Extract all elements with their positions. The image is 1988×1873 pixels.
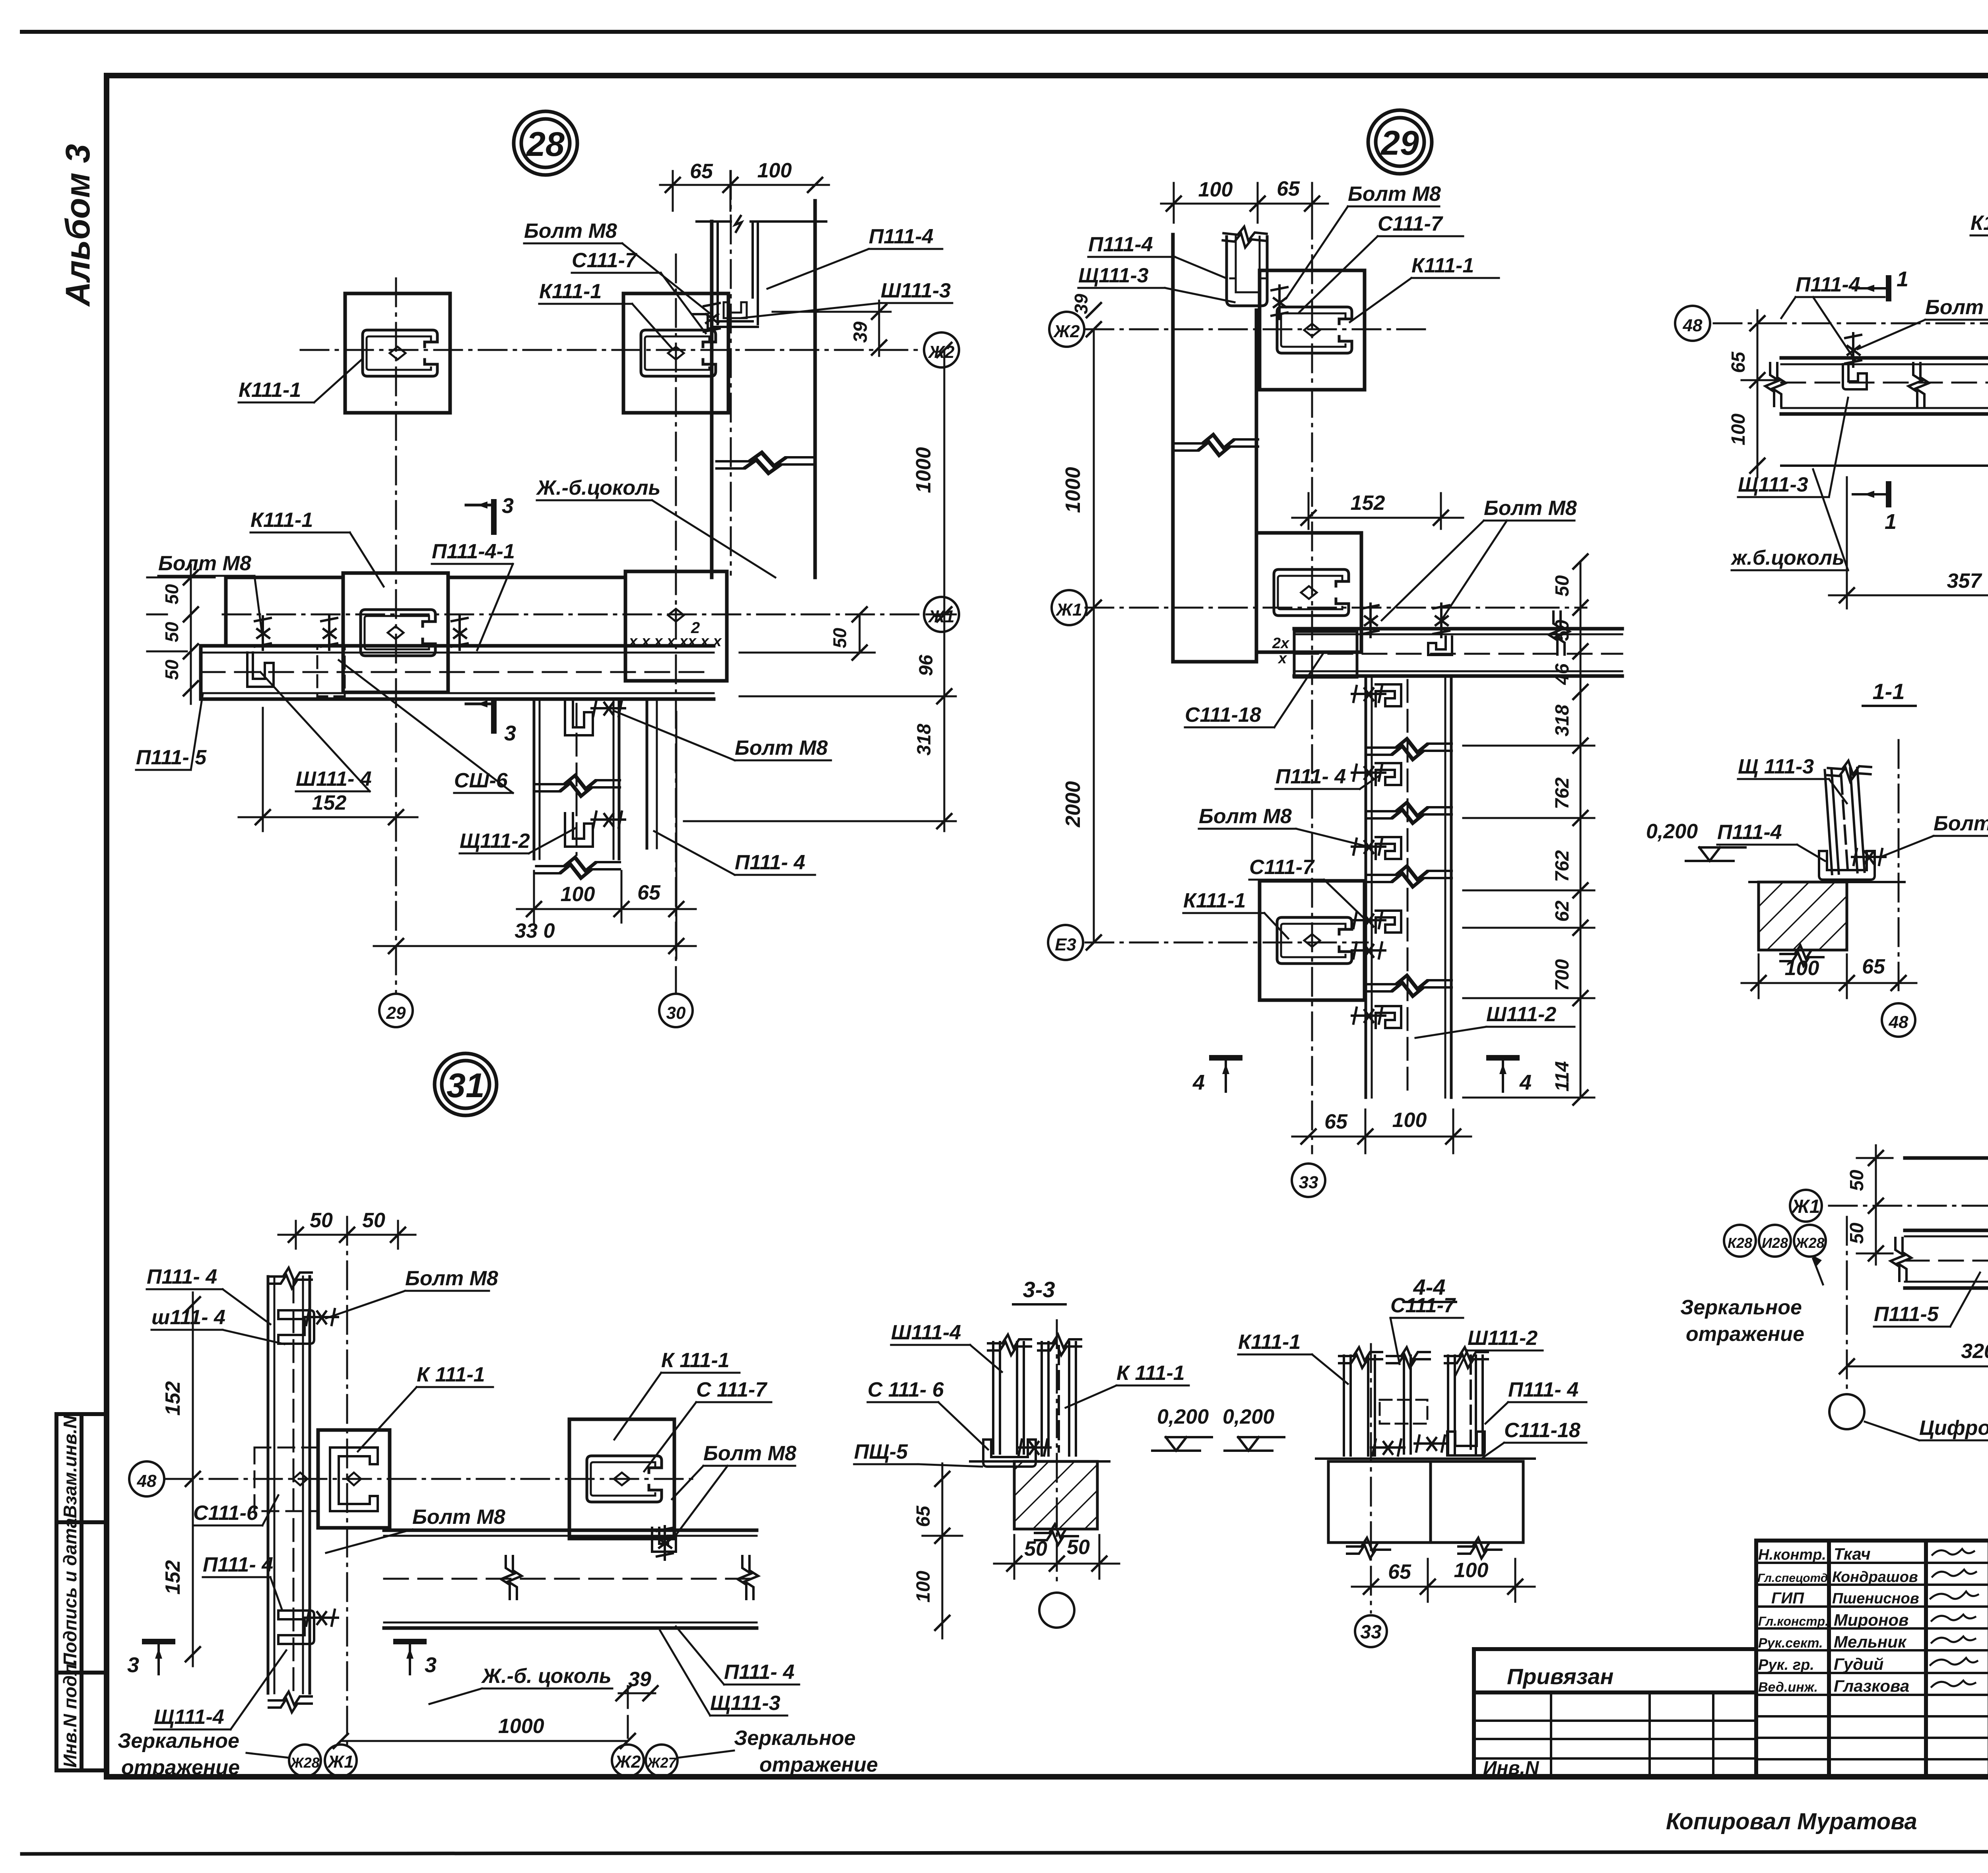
svg-text:Ш111-2: Ш111-2 xyxy=(1468,1327,1538,1350)
posts xyxy=(993,1342,1076,1455)
bolts xyxy=(1845,333,1861,367)
top trim line xyxy=(22,30,1988,34)
svg-text:Щ 111-3: Щ 111-3 xyxy=(1738,755,1814,778)
left dims 50/50 xyxy=(1857,1145,1893,1265)
svg-text:Болт М8: Болт М8 xyxy=(1199,805,1292,828)
svg-text:50: 50 xyxy=(1024,1537,1047,1560)
svg-text:3: 3 xyxy=(425,1653,437,1677)
svg-text:Болт М8: Болт М8 xyxy=(524,220,617,243)
svg-text:К111-1: К111-1 xyxy=(1238,1331,1301,1354)
svg-text:29: 29 xyxy=(1380,124,1419,162)
bolts on beam xyxy=(1363,604,1378,637)
dim 65/100 bottom xyxy=(1292,1109,1471,1153)
svg-text:отражение: отражение xyxy=(121,1756,240,1779)
bracket in beam xyxy=(1428,637,1452,655)
svg-text:Привязан: Привязан xyxy=(1507,1664,1613,1689)
svg-text:С111-7: С111-7 xyxy=(1390,1294,1456,1317)
column below beam xyxy=(534,699,619,859)
svg-text:П111-5: П111-5 xyxy=(1874,1303,1939,1326)
dim 100 65 xyxy=(517,712,696,958)
svg-text:152: 152 xyxy=(312,791,347,814)
foundation hatched xyxy=(1759,882,1847,950)
svg-text:3: 3 xyxy=(502,494,514,518)
svg-text:x: x xyxy=(1277,650,1287,667)
svg-text:П111-4: П111-4 xyxy=(1717,821,1782,844)
bolts on beam xyxy=(255,616,271,650)
svg-text:Щ111-3: Щ111-3 xyxy=(1078,264,1149,287)
svg-text:П111- 4: П111- 4 xyxy=(735,851,805,874)
dashed box SSh-6 xyxy=(317,646,345,696)
svg-text:33 0: 33 0 xyxy=(514,919,555,942)
axis xyxy=(1056,1320,1058,1583)
svg-text:x x x x x: x x x x x xyxy=(628,633,689,650)
svg-text:2: 2 xyxy=(691,619,700,637)
axis vertical through column xyxy=(346,1217,348,1746)
svg-text:50: 50 xyxy=(829,628,850,648)
svg-text:100: 100 xyxy=(561,883,595,906)
svg-text:И28: И28 xyxy=(1762,1235,1788,1251)
plate3 on beam xyxy=(343,573,448,692)
staff table outline xyxy=(1756,1541,1988,1778)
svg-text:1000: 1000 xyxy=(1062,467,1085,513)
svg-text:Ж.-б.цоколь: Ж.-б.цоколь xyxy=(536,476,660,499)
svg-text:100: 100 xyxy=(1198,178,1233,201)
svg-text:50: 50 xyxy=(1067,1536,1090,1559)
detail head circle 31 xyxy=(435,1053,497,1115)
svg-text:ш111- 4: ш111- 4 xyxy=(151,1306,225,1329)
dim 3200 xyxy=(1847,1366,1988,1368)
P111-4 lower wall pair xyxy=(646,699,648,848)
svg-text:К111-1: К111-1 xyxy=(239,379,301,402)
labels mid xyxy=(1183,703,1556,1026)
svg-text:С 111- 6: С 111- 6 xyxy=(868,1378,944,1401)
svg-text:Е3: Е3 xyxy=(1055,935,1076,954)
svg-text:0,200: 0,200 xyxy=(1157,1405,1209,1428)
svg-text:Ж28: Ж28 xyxy=(1794,1235,1824,1251)
bracket P111-4 right xyxy=(1447,1432,1485,1455)
detail head circle 28 xyxy=(514,111,577,175)
posts xyxy=(1344,1356,1483,1455)
svg-text:С111-7: С111-7 xyxy=(1378,212,1443,235)
brackets xyxy=(1843,364,1867,389)
svg-text:С111-18: С111-18 xyxy=(1504,1419,1580,1442)
svg-text:100: 100 xyxy=(1454,1559,1489,1582)
svg-text:Болт М8: Болт М8 xyxy=(405,1267,498,1290)
plate K111-1 left xyxy=(345,293,450,413)
svg-text:Н.контр.: Н.контр. xyxy=(1758,1547,1826,1563)
svg-text:С111-6: С111-6 xyxy=(193,1502,258,1525)
svg-text:4: 4 xyxy=(1192,1071,1205,1094)
corner plate K111-1 xyxy=(1256,533,1361,652)
labels xyxy=(854,1321,1209,1463)
svg-text:65: 65 xyxy=(1277,177,1300,200)
axis E3 xyxy=(1085,942,1368,944)
section 3 markers xyxy=(145,1642,424,1674)
C111-18 plate xyxy=(1294,631,1357,677)
svg-text:С 111-7: С 111-7 xyxy=(696,1378,767,1401)
left attach table (Привязан) xyxy=(1474,1649,1756,1778)
section markers bottom xyxy=(1853,484,1988,507)
svg-text:Вед.инж.: Вед.инж. xyxy=(1758,1680,1818,1695)
dim 1000 bottom xyxy=(341,1740,628,1742)
svg-text:Рук. гр.: Рук. гр. xyxy=(1758,1657,1814,1673)
svg-text:50: 50 xyxy=(1846,1170,1868,1191)
axis circle 48 xyxy=(1882,1003,1915,1037)
svg-text:100: 100 xyxy=(1392,1109,1427,1132)
svg-text:0,200: 0,200 xyxy=(1223,1405,1274,1428)
bolt on plate2 xyxy=(704,301,720,335)
plate K111-1 xyxy=(1260,270,1365,390)
svg-text:Щ111-4: Щ111-4 xyxy=(154,1706,224,1729)
svg-text:Ткач: Ткач xyxy=(1834,1545,1871,1563)
labels xyxy=(1730,212,1988,657)
svg-text:Ж1: Ж1 xyxy=(1790,1196,1820,1217)
xxx weld marks on plate4 xyxy=(628,633,722,650)
detail head circle 29 xyxy=(1368,110,1432,174)
svg-text:ПЩ-5: ПЩ-5 xyxy=(854,1440,908,1463)
foundation xyxy=(1014,1461,1097,1529)
svg-text:П111- 5: П111- 5 xyxy=(136,746,207,769)
svg-text:П111- 4: П111- 4 xyxy=(724,1661,794,1684)
svg-text:отражение: отражение xyxy=(1686,1323,1804,1346)
svg-text:Щ111-2: Щ111-2 xyxy=(460,830,530,853)
svg-text:П111-4-1: П111-4-1 xyxy=(432,540,515,563)
svg-text:29: 29 xyxy=(386,1003,406,1023)
svg-text:Инв.N подл.: Инв.N подл. xyxy=(60,1659,80,1768)
svg-text:Болт М8: Болт М8 xyxy=(1934,812,1988,835)
svg-text:П111- 4: П111- 4 xyxy=(203,1553,273,1576)
axis xyxy=(1898,740,1900,990)
left margin rotated labels xyxy=(60,1415,80,1768)
svg-text:Кондрашов: Кондрашов xyxy=(1832,1569,1918,1585)
axis Ж1 xyxy=(223,614,923,616)
plinth band top right xyxy=(712,201,815,577)
svg-text:Миронов: Миронов xyxy=(1834,1611,1908,1629)
dim 152 xyxy=(1292,493,1463,529)
base line and foundations (no hatch) xyxy=(1316,1457,1535,1460)
digit axis circle xyxy=(1829,1394,1864,1429)
band break marks xyxy=(718,453,813,473)
axis Ж1 xyxy=(1829,1205,1988,1207)
svg-text:Зеркальное: Зеркальное xyxy=(118,1729,239,1753)
labels top xyxy=(1078,183,1474,287)
svg-text:Взам.инв.N: Взам.инв.N xyxy=(60,1415,80,1518)
svg-text:700: 700 xyxy=(1552,959,1573,991)
vertical axis through plates xyxy=(1311,211,1313,1153)
svg-text:Ж1: Ж1 xyxy=(327,1752,353,1772)
beam xyxy=(1781,358,1988,466)
svg-text:П111-4: П111-4 xyxy=(1088,233,1153,256)
sh111-4 bracket in beam xyxy=(247,653,274,687)
axis circle Ж2 xyxy=(924,332,959,367)
svg-text:100: 100 xyxy=(913,1571,934,1603)
svg-text:Щ111-3: Щ111-3 xyxy=(710,1692,780,1715)
svg-text:П111-4: П111-4 xyxy=(1796,273,1860,296)
svg-text:50: 50 xyxy=(1846,1222,1868,1244)
top dim 50/50 xyxy=(278,1221,415,1249)
svg-text:48: 48 xyxy=(137,1471,157,1491)
svg-text:Гл.спецотд: Гл.спецотд xyxy=(1757,1572,1828,1585)
svg-text:3-3: 3-3 xyxy=(1023,1277,1055,1302)
svg-text:К 111-1: К 111-1 xyxy=(661,1349,730,1372)
channel post tilted xyxy=(1825,768,1864,874)
axis vertical 30 xyxy=(675,255,677,993)
svg-text:100: 100 xyxy=(757,159,792,182)
svg-text:152: 152 xyxy=(161,1560,184,1595)
svg-text:2x: 2x xyxy=(1272,635,1290,652)
svg-text:39: 39 xyxy=(628,1668,651,1691)
svg-text:65: 65 xyxy=(690,160,713,183)
svg-text:1000: 1000 xyxy=(498,1715,544,1738)
svg-text:318: 318 xyxy=(1552,705,1573,736)
svg-text:62: 62 xyxy=(1552,900,1573,922)
svg-text:Болт М8: Болт М8 xyxy=(703,1442,796,1465)
labels xyxy=(1646,755,1988,844)
svg-text:100: 100 xyxy=(1728,414,1749,445)
dim 65/100 xyxy=(1352,1586,1535,1588)
vertical axis to circle xyxy=(1846,1217,1848,1392)
plate K111-1 right xyxy=(623,293,728,413)
svg-text:3200: 3200 xyxy=(1961,1340,1988,1363)
svg-text:1: 1 xyxy=(1885,510,1897,534)
axis circles bottom xyxy=(289,1745,321,1776)
svg-text:33: 33 xyxy=(1299,1173,1318,1192)
panel P111-4 profile inside band xyxy=(697,221,826,327)
svg-text:Ш111- 4: Ш111- 4 xyxy=(296,767,372,791)
svg-text:Ж2: Ж2 xyxy=(1053,322,1080,341)
svg-text:Ш111-2: Ш111-2 xyxy=(1486,1003,1556,1026)
svg-text:Болт М8: Болт М8 xyxy=(412,1506,505,1529)
svg-text:50: 50 xyxy=(1552,575,1573,596)
svg-text:1000: 1000 xyxy=(912,447,935,493)
svg-text:Копировал Муратова: Копировал Муратова xyxy=(1666,1809,1917,1834)
svg-text:3: 3 xyxy=(504,721,516,745)
dim 330 xyxy=(374,945,696,947)
svg-text:48: 48 xyxy=(1889,1012,1908,1032)
svg-text:39: 39 xyxy=(1071,293,1091,314)
svg-text:Болт М8: Болт М8 xyxy=(1348,183,1441,206)
bracket P111-4 top of band xyxy=(1227,237,1267,306)
svg-text:33: 33 xyxy=(1360,1622,1382,1643)
svg-text:Ж.-б. цоколь: Ж.-б. цоколь xyxy=(481,1665,612,1688)
left dims 65/100 xyxy=(1741,310,1777,477)
axis 48 xyxy=(165,1478,696,1480)
svg-text:Цифровые оси: Цифровые оси xyxy=(1919,1416,1988,1440)
svg-text:Альбом 3: Альбом 3 xyxy=(59,144,97,307)
svg-text:Зеркальное: Зеркальное xyxy=(1680,1296,1802,1319)
plate4 rect xyxy=(625,571,727,681)
svg-text:Мельник: Мельник xyxy=(1834,1632,1907,1651)
svg-text:96: 96 xyxy=(916,655,937,676)
svg-text:Ш111-4: Ш111-4 xyxy=(891,1321,961,1344)
svg-text:Гудий: Гудий xyxy=(1834,1655,1883,1673)
top dimension 65/100 xyxy=(660,171,829,211)
left dim chain 1000/2000 xyxy=(1093,329,1095,942)
svg-text:Подпись и дата: Подпись и дата xyxy=(60,1518,80,1666)
svg-text:Болт М8: Болт М8 xyxy=(1925,296,1988,319)
labels xyxy=(118,1265,878,1779)
svg-text:Инв.N: Инв.N xyxy=(1483,1758,1540,1779)
wall band vertical xyxy=(1173,235,1256,662)
svg-text:39: 39 xyxy=(850,321,871,343)
right plate K111-1 xyxy=(569,1419,674,1539)
svg-text:152: 152 xyxy=(1351,492,1385,515)
svg-text:318: 318 xyxy=(914,724,935,756)
svg-text:46: 46 xyxy=(1552,663,1573,685)
svg-text:П111- 4: П111- 4 xyxy=(147,1265,217,1288)
svg-text:65: 65 xyxy=(1862,955,1885,978)
upper bracket xyxy=(278,1310,314,1344)
dim 50/50 xyxy=(994,1563,1119,1565)
svg-text:65: 65 xyxy=(1324,1110,1348,1133)
svg-text:3: 3 xyxy=(127,1653,139,1677)
svg-text:762: 762 xyxy=(1552,777,1573,809)
svg-text:Рук.сект.: Рук.сект. xyxy=(1758,1636,1823,1651)
dim 39 xyxy=(773,301,891,356)
svg-text:Болт М8: Болт М8 xyxy=(735,736,828,760)
plate3 K111-1 lower xyxy=(1260,881,1365,1000)
svg-text:Ж1: Ж1 xyxy=(1055,600,1082,620)
signatures squiggles xyxy=(1930,1549,1978,1687)
svg-text:100: 100 xyxy=(1785,957,1819,980)
svg-text:28: 28 xyxy=(526,125,565,163)
svg-text:762: 762 xyxy=(1552,850,1573,882)
svg-text:50: 50 xyxy=(161,659,182,680)
C111-7 bracket under plate xyxy=(652,1528,676,1552)
svg-text:К28: К28 xyxy=(1728,1235,1752,1251)
dim 39 xyxy=(619,1692,655,1694)
svg-text:С111-18: С111-18 xyxy=(1185,703,1261,727)
svg-text:50: 50 xyxy=(1552,620,1573,641)
svg-text:Пшениснов: Пшениснов xyxy=(1832,1590,1919,1607)
svg-text:2000: 2000 xyxy=(1062,781,1085,828)
section 4 markers xyxy=(1212,1058,1517,1092)
sh111-3 channel inside panel bottom xyxy=(724,302,747,318)
svg-text:152: 152 xyxy=(161,1381,184,1416)
middle plate xyxy=(318,1430,390,1528)
svg-text:Зеркальное: Зеркальное xyxy=(734,1727,856,1750)
svg-text:Щ111-3: Щ111-3 xyxy=(1738,473,1808,496)
svg-text:65: 65 xyxy=(1728,351,1749,373)
svg-text:К111-1: К111-1 xyxy=(1183,889,1246,912)
svg-text:65: 65 xyxy=(1388,1560,1411,1584)
beam going right xyxy=(384,1530,757,1628)
axis 48 horizontal xyxy=(1714,323,1988,324)
svg-text:50: 50 xyxy=(161,622,182,642)
axis circles 29 30 xyxy=(379,994,413,1027)
axis Ж2 horizontal dash-dot xyxy=(301,349,923,351)
inner 50 dim at beam right xyxy=(740,614,875,653)
svg-text:ж.б.цоколь: ж.б.цоколь xyxy=(1730,546,1844,569)
bottom trim line xyxy=(22,1851,1988,1854)
svg-text:0,200: 0,200 xyxy=(1646,820,1698,843)
svg-text:114: 114 xyxy=(1552,1061,1573,1092)
left margin boxes xyxy=(56,1414,107,1770)
brackets in column xyxy=(1376,684,1401,1028)
152 dims xyxy=(192,1292,194,1666)
left 50-dims xyxy=(147,565,215,704)
label bolt M8 xyxy=(239,220,951,402)
svg-text:П111- 4: П111- 4 xyxy=(1276,765,1346,788)
svg-text:30: 30 xyxy=(666,1003,686,1023)
beam xyxy=(1905,1158,1988,1288)
axis circle xyxy=(1039,1593,1074,1628)
svg-text:Ж28: Ж28 xyxy=(289,1754,319,1771)
svg-text:СШ-6: СШ-6 xyxy=(454,769,508,792)
svg-text:Ж1: Ж1 xyxy=(928,607,954,626)
axis xyxy=(1370,1344,1372,1613)
svg-text:К111-1: К111-1 xyxy=(250,509,313,532)
svg-text:1: 1 xyxy=(1897,267,1908,291)
labels xyxy=(1223,1294,1580,1442)
svg-text:50: 50 xyxy=(161,584,182,604)
P111-4 shoe xyxy=(1819,851,1875,880)
svg-text:К 111-1: К 111-1 xyxy=(417,1363,485,1386)
svg-text:К111-1: К111-1 xyxy=(1411,254,1474,277)
svg-text:1-1: 1-1 xyxy=(1873,679,1905,704)
svg-text:Болт М8: Болт М8 xyxy=(1484,497,1577,520)
svg-text:отражение: отражение xyxy=(759,1753,878,1776)
main column vertical xyxy=(268,1277,310,1693)
bent bracket C111-7 xyxy=(693,314,718,328)
axis circle 33 xyxy=(1355,1615,1387,1647)
svg-text:П111-4: П111-4 xyxy=(869,225,934,248)
svg-text:Гл.констр.: Гл.констр. xyxy=(1758,1614,1829,1628)
svg-text:Болт М8: Болт М8 xyxy=(158,552,251,575)
lower bracket xyxy=(278,1611,314,1644)
svg-text:Глазкова: Глазкова xyxy=(1834,1677,1909,1695)
column below xyxy=(1366,676,1451,1098)
svg-text:С111-7: С111-7 xyxy=(572,249,637,272)
beam assembly xyxy=(201,577,714,699)
brackets on column xyxy=(565,702,593,735)
svg-text:31: 31 xyxy=(447,1067,485,1105)
svg-text:К 111-1: К 111-1 xyxy=(1116,1362,1185,1385)
svg-text:К111-1: К111-1 xyxy=(1971,212,1988,235)
svg-text:50: 50 xyxy=(310,1209,333,1232)
right dim chain xyxy=(1580,562,1582,1098)
dim 152 xyxy=(239,708,417,831)
svg-text:ГИП: ГИП xyxy=(1771,1589,1804,1607)
labels xyxy=(1680,1296,1988,1440)
svg-text:4: 4 xyxy=(1519,1071,1532,1094)
axis vertical 29 xyxy=(395,278,397,993)
svg-text:П111- 4: П111- 4 xyxy=(1508,1378,1578,1401)
svg-text:65: 65 xyxy=(637,881,661,904)
svg-text:Ж2: Ж2 xyxy=(614,1752,641,1772)
axis Ж2 xyxy=(1085,328,1431,330)
dim 100/65 xyxy=(1741,982,1916,984)
section marker 3 upper xyxy=(466,501,494,532)
dim 357/357 xyxy=(1829,422,1988,608)
svg-text:65: 65 xyxy=(913,1505,934,1527)
svg-text:Ж27: Ж27 xyxy=(646,1754,677,1771)
svg-text:С111-7: С111-7 xyxy=(1249,856,1315,879)
top dim 100/65 xyxy=(1161,183,1328,223)
dashed connector xyxy=(1380,1400,1427,1424)
axis circle 33 xyxy=(1292,1164,1325,1197)
svg-text:К111-1: К111-1 xyxy=(539,280,602,303)
labels lower part xyxy=(136,476,828,874)
right dims 65/100 xyxy=(942,1463,944,1638)
axis circles K28 I28 Zh28 xyxy=(1724,1225,1756,1257)
beam to the right xyxy=(1294,629,1622,676)
right dim chain 1000/96/318 xyxy=(684,350,956,831)
staff names xyxy=(1757,1545,1988,1695)
svg-text:50: 50 xyxy=(362,1209,385,1232)
shoe bracket xyxy=(983,1440,1036,1467)
svg-text:357: 357 xyxy=(1947,569,1982,593)
